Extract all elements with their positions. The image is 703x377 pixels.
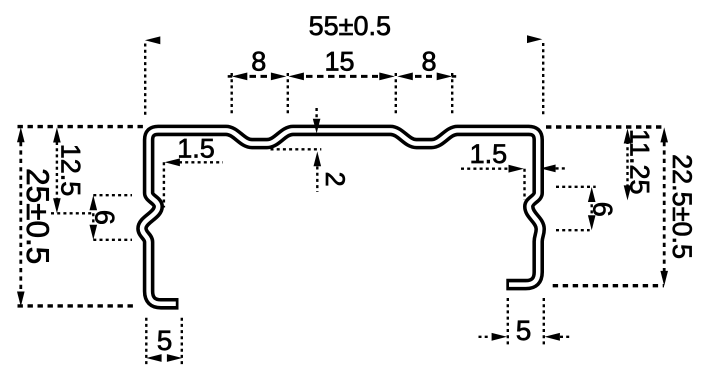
svg-text:22.5±0.5: 22.5±0.5: [667, 154, 697, 259]
svg-text:11.25: 11.25: [624, 129, 654, 195]
svg-text:5: 5: [157, 325, 173, 356]
leader dotted stub above down-arrow: [315, 108, 317, 119]
outside arrow pointing right: [492, 333, 507, 341]
down arrow of left 6: [90, 225, 98, 240]
dimension 55±0.5 (overall width, top): [145, 11, 543, 117]
down arrow of 12.5: [53, 198, 61, 213]
segment "8" right: dashed dimension line: [415, 75, 432, 78]
dotted tail of right outside arrow: [560, 336, 571, 338]
dimension line 22.5±0.5 (vertical dashed): [663, 142, 666, 271]
outside arrow pointing left: [545, 333, 560, 341]
segment "8" right: right arrow: [437, 73, 453, 81]
segment "15": right arrow: [379, 73, 395, 81]
arrow pointing right: [167, 354, 182, 362]
down arrow to top surface: [313, 119, 321, 134]
arrow left (points to left extension line): [145, 36, 160, 44]
dotted reference line at rib bottom (right): [556, 229, 590, 231]
dotted reference line at rib bottom (left): [93, 239, 132, 241]
extension line right (x=182): [181, 318, 183, 366]
extension line 3 (x=396): [395, 73, 397, 116]
extension line left (x=145): [144, 44, 146, 118]
bottom left dimension 5 (left lip width): [146, 318, 182, 366]
extension line at bottom of right leg: [553, 284, 664, 287]
tip tick at extension line 1: [228, 75, 233, 78]
dotted reference line at rib top (left): [93, 194, 132, 196]
extension line left (x=146): [145, 318, 147, 366]
up arrow of right 6: [588, 187, 596, 202]
extension line right (x=544): [543, 298, 545, 346]
extension line at top surface (left): [18, 125, 144, 128]
segment "8": left arrow: [232, 73, 248, 81]
up arrow of 25±0.5: [17, 127, 25, 142]
opposing arrow pointing left at outer wall: [540, 165, 555, 173]
left dimension block: 25±0.5, 12.5, 6: [17, 127, 143, 307]
up arrow to groove bottom: [314, 152, 322, 167]
arrow right (points to right extension line): [527, 35, 542, 43]
dimensions 8 / 15 / 8 (top groove spacing): [228, 46, 457, 115]
right dimension block: 22.5±0.5, 11.25, 6: [546, 127, 697, 286]
svg-text:5: 5: [516, 315, 532, 346]
extension line right (x=543): [542, 43, 544, 117]
dimension line 12.5 (vertical dotted): [56, 142, 58, 200]
segment "8" right: left arrow: [397, 73, 413, 81]
dotted reference line at rib centre (y=213): [51, 212, 94, 214]
svg-text:55±0.5: 55±0.5: [309, 11, 391, 41]
svg-text:2: 2: [320, 172, 350, 187]
dimension line 25±0.5 (vertical dashed): [19, 142, 22, 292]
segment "15": dashed dimension line: [306, 75, 378, 78]
svg-text:12.5: 12.5: [56, 144, 86, 197]
segment "8": dashed dimension line: [250, 75, 271, 78]
leader arrow pointing left: [165, 158, 180, 166]
up arrow of left 6: [90, 195, 98, 210]
dotted extension down to the rib: [523, 169, 525, 200]
dotted leader line: [461, 167, 509, 169]
up arrow of 12.5: [53, 128, 61, 143]
down arrow of 22.5±0.5: [660, 271, 668, 286]
down arrow of right 6: [588, 215, 596, 230]
down arrow of 11.25: [624, 185, 632, 200]
extension line 2 (x=288): [287, 73, 289, 116]
svg-text:6: 6: [588, 202, 618, 217]
leader arrow pointing right: [509, 165, 524, 173]
down arrow of 25±0.5: [17, 292, 25, 307]
extension line at top surface (right): [546, 125, 666, 128]
segment "15": left arrow: [288, 73, 304, 81]
bottom right dimension 5 (right lip width): [479, 298, 572, 346]
dimension line 6 (vertical dotted, right): [591, 198, 593, 220]
arrow pointing left: [146, 354, 161, 362]
svg-text:8: 8: [251, 46, 266, 76]
tip tick at extension line 4: [452, 75, 457, 78]
svg-text:6: 6: [89, 210, 119, 225]
extension line left (x=508): [507, 298, 509, 346]
dotted tail of left outside arrow: [479, 336, 491, 338]
svg-text:8: 8: [421, 46, 436, 76]
dotted reference line at rib top (right): [556, 186, 596, 188]
dimension 2 (groove depth): [271, 108, 350, 192]
dotted extension down to the rib: [163, 162, 165, 207]
up arrow of 11.25: [624, 129, 632, 144]
dotted reference line at groove bottom: [271, 148, 322, 150]
leader dotted stub below up-arrow: [316, 167, 318, 193]
svg-text:15: 15: [324, 46, 354, 76]
svg-text:1.5: 1.5: [470, 139, 508, 169]
profile outline: hat-channel sheet-metal cross-section, outer black pass: [142, 130, 540, 303]
up arrow of 22.5±0.5: [660, 127, 668, 142]
left 1.5 (wall thickness callout): [164, 134, 223, 208]
profile outline: inner white pass (creates the double line / wall thickness): [142, 130, 540, 303]
svg-text:25±0.5: 25±0.5: [20, 168, 56, 264]
segment "8": right arrow: [271, 73, 287, 81]
extension line 1 (x=232): [230, 73, 232, 116]
extension line 4 (x=452): [451, 73, 453, 116]
extension line at bottom of left leg: [18, 304, 137, 307]
dimension line 6 (vertical dotted, left): [92, 207, 94, 228]
dotted leader line: [179, 161, 223, 163]
svg-text:1.5: 1.5: [177, 134, 215, 164]
dotted tail of opposing arrow: [556, 167, 566, 169]
dimension line 11.25 (vertical dotted): [626, 141, 628, 188]
right 1.5 (wall thickness callout): [461, 139, 566, 200]
